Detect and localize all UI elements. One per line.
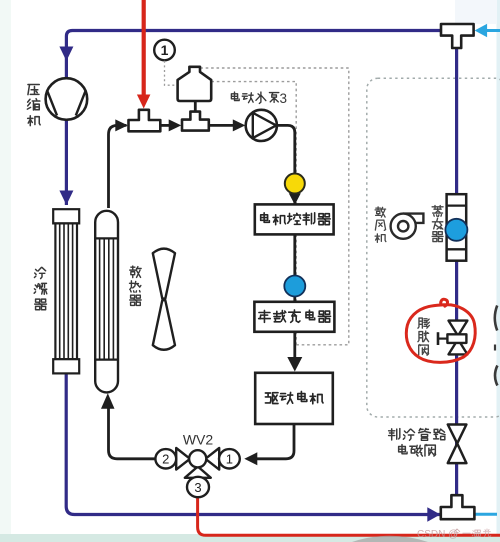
svg-text:3: 3 (280, 91, 288, 106)
wire: black pipe valve port2 to radiator bottom (109, 407, 157, 459)
label 电动水泵3 (231, 92, 239, 101)
tee2 fitting (under tank) (182, 112, 209, 131)
blower fan (391, 214, 424, 239)
on-board charger box (254, 302, 334, 332)
WV2 valve bottom triangle (185, 467, 211, 478)
arrow red down into tee1 (137, 95, 151, 109)
dashed enclosure AC/evaporator section (367, 78, 500, 417)
wire: black pipe yellow sensor to motor controller (293, 193, 296, 206)
WV2 valve right triangle (205, 448, 219, 470)
wire: black pipe charger to drive motor (293, 332, 296, 360)
motor controller box (255, 204, 334, 234)
WV2 port2 ellipse (155, 449, 176, 468)
label 蒸发器 (432, 206, 443, 217)
label 电机控制器 (261, 213, 270, 223)
label 电磁阀 (399, 445, 407, 454)
electric water pump (246, 110, 277, 141)
wire: black pipe tee1 to tee2 (160, 124, 169, 127)
arrow navy right into bottom tee (427, 507, 440, 522)
wire: black pipe tee2 to pump (209, 124, 233, 127)
wire: black pipe controller to charger (through blue sensor) (293, 234, 296, 302)
svg-text:WV2: WV2 (183, 432, 214, 448)
svg-text:2: 2 (162, 452, 169, 467)
blue sensor ball on evaporator (445, 219, 467, 241)
svg-text:CSDN @: CSDN @ (417, 529, 458, 540)
arrow charger to drive motor (287, 357, 302, 372)
tee1 fitting (129, 110, 161, 132)
top tee fitting (441, 24, 474, 48)
wire: black pipe pump to yellow sensor (275, 125, 295, 175)
WV2 valve left triangle (176, 448, 190, 470)
wire: cyan refrigerant out (bottom right) (474, 513, 497, 516)
wire: navy pipe condenser bottom to bottom tee (66, 373, 440, 515)
wire: navy pipe right vertical (evaporator branch) (455, 48, 458, 496)
wire: cyan refrigerant in (top right) (486, 29, 500, 32)
drive motor box (255, 373, 333, 424)
label 散热器 (130, 266, 141, 278)
right page border (497, 0, 500, 542)
label 制冷管路 (389, 429, 400, 440)
solenoid valve (refrigerant line) (448, 425, 467, 464)
callout circle 1 (154, 40, 175, 61)
label 压缩机 (28, 85, 39, 95)
wire: red line valve port3 to bottom right (198, 496, 500, 535)
radiator (95, 211, 118, 393)
top-right pale tint (455, 0, 497, 24)
WV2 valve center ball (189, 450, 206, 467)
svg-text:1: 1 (226, 452, 233, 467)
expansion valve (438, 321, 467, 355)
label 冷凝器 (34, 267, 45, 278)
dotted leader from callout to tank (165, 61, 177, 85)
label 鼓风机 (375, 207, 386, 217)
svg-text:3: 3 (194, 480, 201, 495)
arrow navy down into compressor (59, 47, 73, 62)
dashed enclosure motor-coolant section inner (211, 82, 296, 345)
cut-off glyph marks at right edge (495, 306, 497, 331)
expansion tank (178, 67, 212, 101)
WV2 port3 ellipse (187, 477, 209, 497)
cooling fan (153, 249, 175, 350)
wire: tank stem (194, 100, 197, 114)
arrow cyan into top tee (475, 24, 488, 37)
arrow into tee1 (115, 119, 128, 131)
arrow into valve port1 (244, 452, 257, 465)
yellow temperature sensor ball (285, 174, 305, 194)
wire: black pipe drive motor to valve port1 (256, 424, 294, 459)
label 车载充电器 (259, 310, 271, 322)
wire: black pipe radiator top to tee1 (109, 125, 127, 208)
arrow into pump (233, 119, 246, 131)
blue temperature sensor ball 1 (284, 276, 305, 297)
evaporator (447, 194, 467, 261)
arrow up into radiator (101, 393, 115, 409)
label 驱动电机 (265, 393, 278, 404)
arrow tee1 to tee2 (169, 119, 182, 131)
wire: navy pipe compressor top (horizontal main) (66, 31, 441, 206)
svg-text:1: 1 (161, 42, 169, 58)
condenser (53, 209, 79, 373)
compressor symbol (46, 78, 88, 120)
bottom page band (0, 534, 500, 542)
WV2 port1 ellipse (219, 449, 240, 468)
label 膨胀阀 (418, 318, 429, 328)
red hand-drawn highlight circle around expansion valve (406, 299, 475, 362)
arrow into motor controller (289, 193, 301, 205)
arrow navy down into condenser (59, 191, 73, 206)
left page edge tint (0, 0, 11, 542)
gray blob bottom (352, 536, 428, 542)
wire: red coolant line top (142, 0, 146, 96)
bottom tee fitting (441, 495, 475, 519)
dashed enclosure motor-coolant section outer (200, 68, 348, 345)
